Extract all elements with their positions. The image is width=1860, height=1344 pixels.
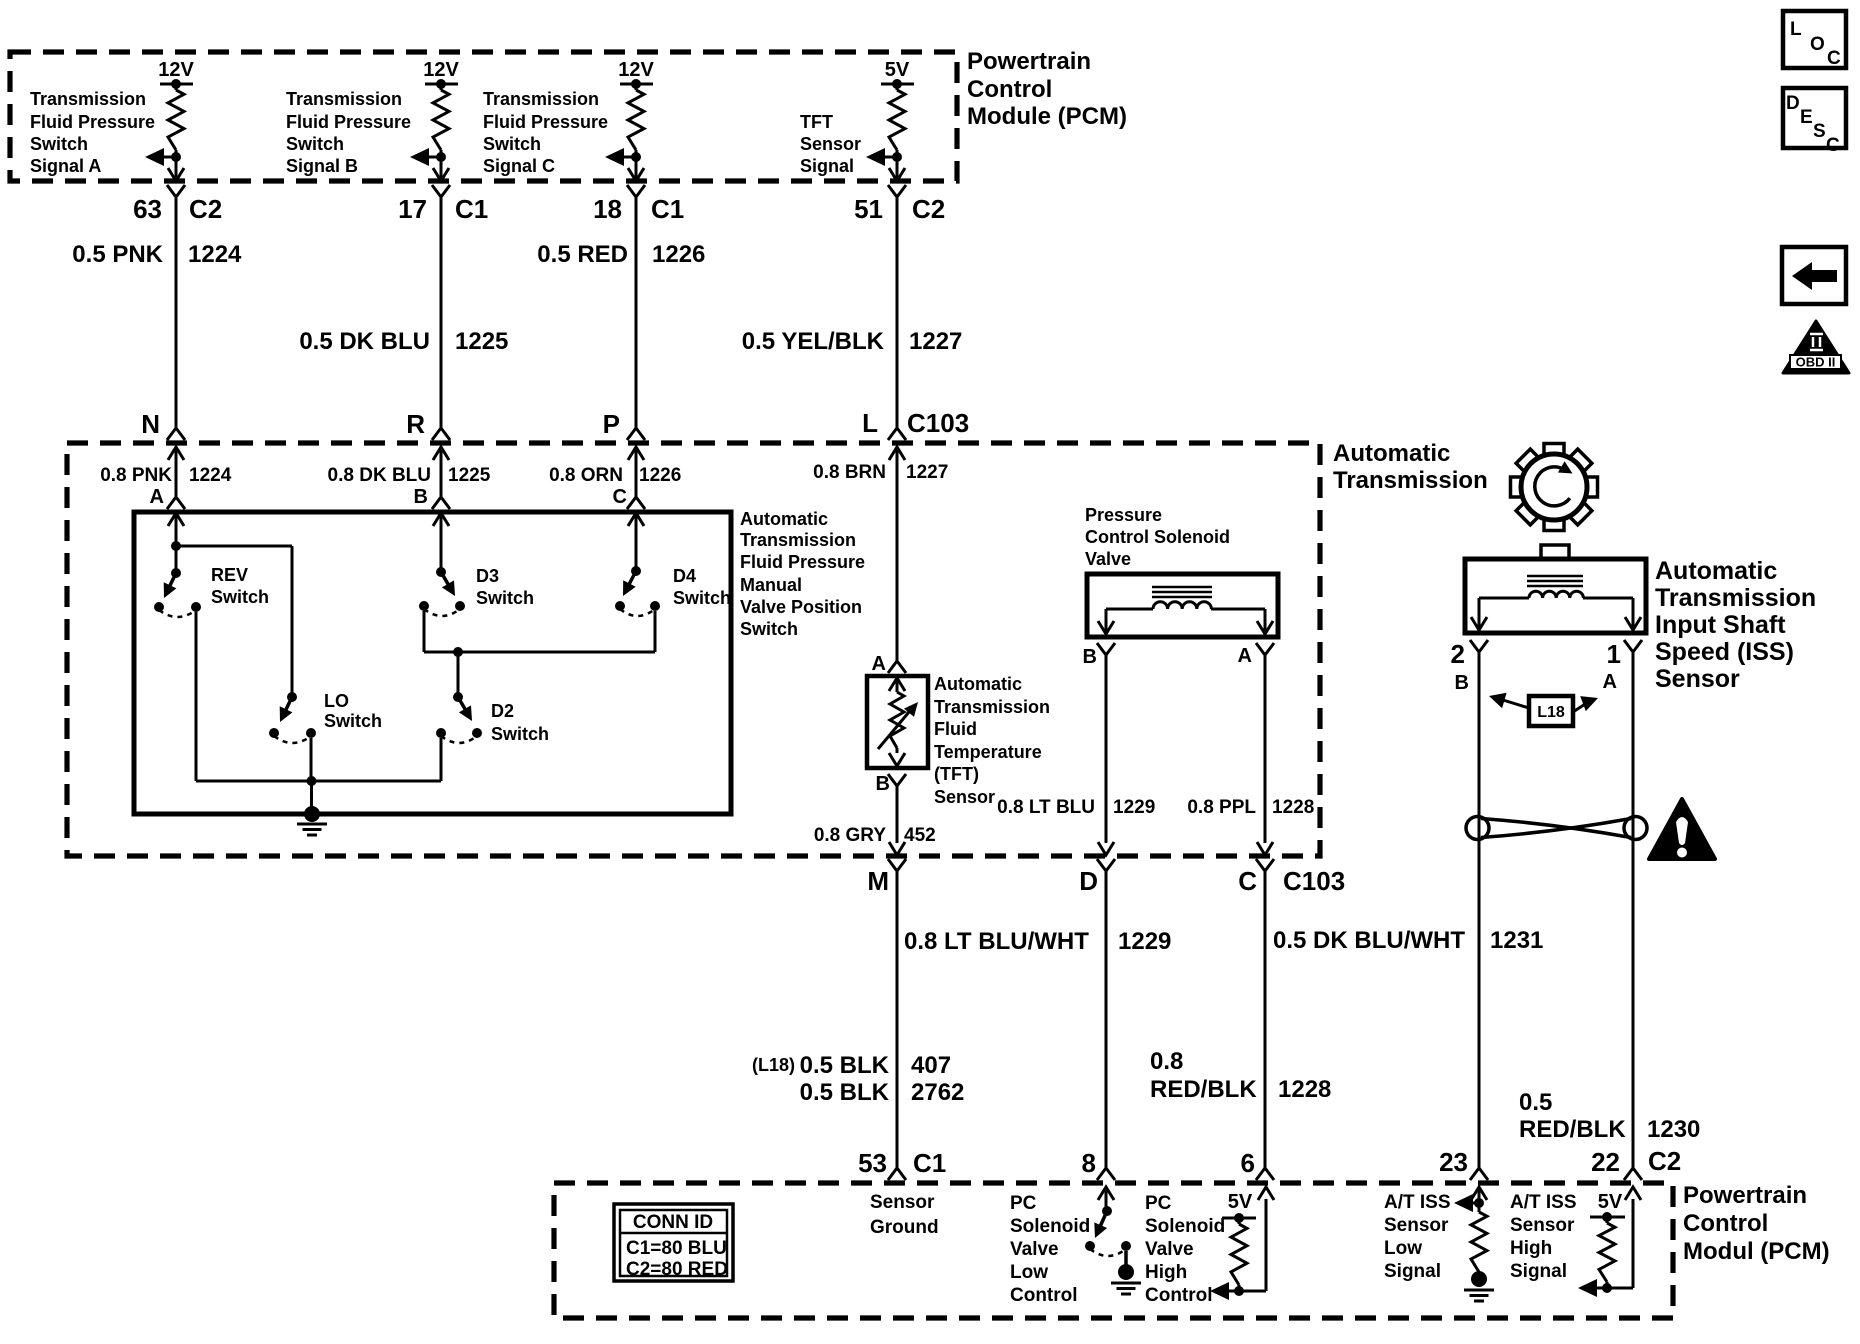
- svg-text:0.8 LT BLU/WHT: 0.8 LT BLU/WHT: [904, 928, 1089, 955]
- svg-text:1229: 1229: [1113, 797, 1155, 818]
- svg-text:2762: 2762: [911, 1079, 964, 1106]
- svg-text:B: B: [414, 486, 428, 508]
- svg-text:0.5 YEL/BLK: 0.5 YEL/BLK: [742, 328, 885, 355]
- svg-text:Signal: Signal: [1510, 1261, 1567, 1282]
- svg-text:Manual: Manual: [740, 575, 802, 595]
- ground: ISS low signal: [1471, 1271, 1487, 1287]
- svg-text:C: C: [613, 486, 627, 508]
- svg-text:B: B: [1455, 672, 1469, 694]
- svg-text:C1: C1: [455, 194, 488, 224]
- svg-text:B: B: [1083, 646, 1097, 668]
- svg-text:Transmission: Transmission: [483, 89, 599, 109]
- connector fork pin 22: [1624, 1168, 1642, 1180]
- svg-text:CONN ID: CONN ID: [633, 1212, 713, 1233]
- svg-text:Switch: Switch: [673, 588, 731, 608]
- connector fork pin 23: [1470, 1168, 1488, 1180]
- svg-text:Sensor: Sensor: [1384, 1215, 1449, 1236]
- svg-text:Switch: Switch: [740, 619, 798, 639]
- svg-text:Fluid Pressure: Fluid Pressure: [740, 552, 865, 572]
- wire 1225 inside transmission (node B): [433, 447, 449, 460]
- top PCM dashed box (Powertrain Control Module): [10, 52, 957, 181]
- svg-text:18: 18: [593, 194, 622, 224]
- thermistor: TFT sensor element: [889, 678, 905, 691]
- svg-text:C103: C103: [1283, 866, 1345, 896]
- svg-text:Temperature: Temperature: [934, 742, 1042, 762]
- svg-text:1229: 1229: [1118, 928, 1171, 955]
- svg-text:D2: D2: [491, 701, 514, 721]
- connector C103 pin C: [1256, 859, 1274, 871]
- wire 1231 (ISS B to pin 23): [1478, 652, 1481, 1168]
- svg-text:Pressure: Pressure: [1085, 505, 1162, 525]
- svg-text:High: High: [1145, 1262, 1187, 1283]
- svg-text:A: A: [1238, 645, 1252, 667]
- wire 1226 inside transmission (node C): [628, 447, 644, 460]
- wire bus to case ground: [310, 781, 313, 814]
- svg-text:O: O: [1810, 34, 1825, 55]
- svg-text:0.8 LT BLU: 0.8 LT BLU: [997, 797, 1095, 818]
- svg-text:L18: L18: [1537, 704, 1565, 721]
- node: ground bus junction: [307, 776, 317, 786]
- svg-text:1227: 1227: [909, 328, 962, 355]
- pin 51 C2 connector: [888, 185, 906, 197]
- warning triangle icon: [1649, 799, 1715, 859]
- connector A into switch box: [167, 497, 185, 509]
- svg-text:Transmission: Transmission: [1655, 584, 1816, 612]
- svg-text:407: 407: [911, 1052, 951, 1079]
- svg-text:1226: 1226: [639, 465, 681, 486]
- svg-text:Transmission: Transmission: [934, 697, 1050, 717]
- svg-text:12V: 12V: [158, 59, 194, 81]
- wire 1228 (C to pin 6): [1264, 871, 1267, 1168]
- icon: rotating gear: [1544, 444, 1564, 457]
- svg-text:0.8 DK BLU: 0.8 DK BLU: [328, 465, 431, 486]
- svg-text:23: 23: [1439, 1147, 1468, 1177]
- wire 1227 (pin51 to C103 L): [896, 197, 899, 428]
- svg-text:A/T ISS: A/T ISS: [1384, 1192, 1451, 1213]
- svg-text:0.5 BLK: 0.5 BLK: [800, 1052, 890, 1079]
- svg-text:Fluid Pressure: Fluid Pressure: [30, 112, 155, 132]
- svg-text:0.5 DK BLU/WHT: 0.5 DK BLU/WHT: [1273, 927, 1465, 954]
- svg-text:0.8: 0.8: [1150, 1048, 1183, 1075]
- switch: PC solenoid low control driver: [1098, 1187, 1114, 1200]
- wire 1227 inside transmission (to TFT sensor): [889, 447, 905, 460]
- svg-text:PC: PC: [1145, 1193, 1172, 1214]
- svg-text:6: 6: [1241, 1148, 1255, 1178]
- connector B of TFT sensor: [888, 774, 906, 786]
- wire 452 (TFT B to C103 M): [896, 786, 899, 843]
- svg-text:Control: Control: [1683, 1210, 1768, 1237]
- svg-text:Signal B: Signal B: [286, 156, 358, 176]
- svg-text:Modul (PCM): Modul (PCM): [1683, 1238, 1830, 1265]
- svg-text:452: 452: [904, 825, 936, 846]
- pin 63 C2 connector: [167, 185, 185, 197]
- svg-text:C1=80 BLU: C1=80 BLU: [626, 1238, 727, 1259]
- connector C103 pin N: [167, 428, 185, 440]
- wire junction-A to LO switch: [176, 545, 292, 548]
- svg-text:RED/BLK: RED/BLK: [1519, 1116, 1626, 1143]
- svg-text:C: C: [1238, 866, 1257, 896]
- svg-text:Sensor: Sensor: [934, 787, 995, 807]
- svg-text:C: C: [1827, 48, 1841, 69]
- wire junction to D2 pivot: [457, 652, 460, 697]
- connector pin 1 A of ISS sensor: [1624, 640, 1642, 652]
- ISS sensor box: [1541, 545, 1569, 559]
- connector pin 2 B of ISS sensor: [1470, 640, 1488, 652]
- svg-text:1227: 1227: [906, 462, 948, 483]
- svg-text:M: M: [867, 866, 889, 896]
- svg-text:D4: D4: [673, 566, 696, 586]
- svg-text:Signal: Signal: [800, 156, 854, 176]
- node: D2 feed junction: [453, 647, 463, 657]
- icon: LOC box: [1783, 11, 1846, 68]
- svg-text:C2: C2: [189, 194, 222, 224]
- connector C103 pin D: [1097, 859, 1115, 871]
- svg-text:(L18): (L18): [752, 1055, 795, 1075]
- icon: back arrow box: [1782, 247, 1846, 304]
- connector C103 pin M: [888, 859, 906, 871]
- svg-text:1224: 1224: [188, 241, 242, 268]
- wire 1225 (pin17 to C103 R): [440, 197, 443, 428]
- svg-text:E: E: [1800, 107, 1813, 128]
- Manual Valve Position Switch box: [134, 512, 731, 814]
- wire REV contact to ground bus: [195, 612, 198, 781]
- twisted pair symbol: [1466, 817, 1647, 840]
- svg-text:Valve: Valve: [1010, 1239, 1059, 1260]
- svg-text:Automatic: Automatic: [740, 509, 828, 529]
- svg-text:Sensor: Sensor: [1655, 665, 1740, 693]
- svg-text:C2=80 RED: C2=80 RED: [626, 1259, 728, 1280]
- connector C103 pin R: [432, 428, 450, 440]
- svg-text:Control: Control: [967, 76, 1052, 103]
- svg-text:1226: 1226: [652, 241, 705, 268]
- wire LO contact to ground bus: [310, 738, 313, 781]
- connector A of solenoid valve: [1256, 643, 1274, 655]
- svg-text:1228: 1228: [1272, 797, 1314, 818]
- svg-text:C103: C103: [907, 408, 969, 438]
- svg-text:12V: 12V: [423, 59, 459, 81]
- connector A of TFT sensor: [888, 661, 906, 673]
- svg-text:Low: Low: [1384, 1238, 1422, 1259]
- svg-text:Fluid Pressure: Fluid Pressure: [483, 112, 608, 132]
- connector C103 pin P: [627, 428, 645, 440]
- svg-text:Automatic: Automatic: [1655, 557, 1777, 585]
- svg-text:PC: PC: [1010, 1193, 1037, 1214]
- svg-text:Switch: Switch: [30, 134, 88, 154]
- svg-text:Switch: Switch: [211, 587, 269, 607]
- wire D4 contact to D2: [654, 611, 657, 652]
- svg-text:D: D: [1786, 93, 1800, 114]
- svg-text:0.8 GRY: 0.8 GRY: [814, 825, 886, 846]
- wire D3 contact to D2: [423, 611, 426, 652]
- resistor: A/T ISS sensor low signal (pin 23): [1471, 1187, 1487, 1200]
- svg-text:0.8 PPL: 0.8 PPL: [1187, 797, 1256, 818]
- svg-text:C: C: [1826, 135, 1840, 156]
- svg-text:P: P: [603, 409, 620, 439]
- svg-text:LO: LO: [324, 691, 349, 711]
- svg-text:Control: Control: [1010, 1285, 1078, 1306]
- svg-text:0.8 ORN: 0.8 ORN: [549, 465, 623, 486]
- connector C103 pin L: [888, 428, 906, 440]
- svg-text:Signal A: Signal A: [30, 156, 101, 176]
- svg-text:Automatic: Automatic: [1333, 440, 1450, 467]
- svg-text:C2: C2: [912, 194, 945, 224]
- ground: PC solenoid high contact: [1118, 1264, 1134, 1280]
- svg-text:B: B: [876, 773, 890, 795]
- svg-text:1: 1: [1607, 639, 1621, 669]
- wire 1228 (solenoid A to C103 C): [1264, 655, 1267, 843]
- wire 1229 (solenoid B to C103 D): [1105, 655, 1108, 843]
- svg-text:Solenoid: Solenoid: [1010, 1216, 1090, 1237]
- wire 1226 (pin18 to C103 P): [635, 197, 638, 428]
- svg-text:C1: C1: [651, 194, 684, 224]
- wire 1230 (ISS A to pin 22): [1632, 652, 1635, 1168]
- svg-text:Module (PCM): Module (PCM): [967, 103, 1127, 130]
- svg-text:N: N: [141, 409, 160, 439]
- svg-text:0.5 RED: 0.5 RED: [537, 241, 628, 268]
- callout L18: [1529, 696, 1573, 726]
- switch D4: [631, 566, 641, 576]
- svg-text:Transmission: Transmission: [30, 89, 146, 109]
- svg-text:L: L: [1790, 19, 1802, 40]
- svg-text:A: A: [872, 653, 886, 675]
- svg-text:5V: 5V: [885, 59, 910, 81]
- ground: switch assembly case: [304, 806, 320, 822]
- svg-text:Solenoid: Solenoid: [1145, 1216, 1225, 1237]
- switch LO: [287, 692, 297, 702]
- svg-text:51: 51: [854, 194, 883, 224]
- svg-text:Transmission: Transmission: [1333, 467, 1488, 494]
- svg-text:Sensor: Sensor: [1510, 1215, 1575, 1236]
- svg-text:Signal: Signal: [1384, 1261, 1441, 1282]
- svg-text:A: A: [150, 486, 164, 508]
- wire 1224 (pin63 to C103 N): [175, 197, 178, 428]
- Automatic Transmission dashed box: [67, 443, 1320, 856]
- svg-text:Speed (ISS): Speed (ISS): [1655, 638, 1794, 666]
- svg-text:1228: 1228: [1278, 1076, 1331, 1103]
- svg-text:Input Shaft: Input Shaft: [1655, 611, 1786, 639]
- svg-text:0.8 PNK: 0.8 PNK: [100, 465, 172, 486]
- connector C into switch box: [627, 497, 645, 509]
- svg-text:OBD II: OBD II: [1796, 355, 1836, 370]
- switch REV: [175, 546, 178, 573]
- svg-text:C2: C2: [1648, 1146, 1681, 1176]
- svg-text:TFT: TFT: [800, 112, 833, 132]
- svg-text:Switch: Switch: [476, 588, 534, 608]
- svg-text:0.5 BLK: 0.5 BLK: [800, 1079, 890, 1106]
- node: junction A / REV branch: [171, 541, 181, 551]
- svg-text:L: L: [862, 408, 878, 438]
- ISS sensor coil: [1527, 575, 1583, 578]
- svg-text:RED/BLK: RED/BLK: [1150, 1076, 1257, 1103]
- svg-text:0.8 BRN: 0.8 BRN: [813, 462, 886, 483]
- svg-text:Powertrain: Powertrain: [967, 48, 1091, 75]
- solenoid: Pressure Control Solenoid Valve box: [1087, 574, 1278, 637]
- TFT sensor box: [867, 676, 928, 768]
- wire 407/2762 (M to pin 53): [896, 871, 899, 1168]
- svg-text:53: 53: [858, 1148, 887, 1178]
- svg-text:63: 63: [133, 194, 162, 224]
- svg-text:Switch: Switch: [324, 711, 382, 731]
- switch D3: [436, 567, 446, 577]
- svg-text:Control Solenoid: Control Solenoid: [1085, 527, 1230, 547]
- svg-text:Transmission: Transmission: [286, 89, 402, 109]
- svg-text:(TFT): (TFT): [934, 764, 979, 784]
- svg-text:1230: 1230: [1647, 1116, 1700, 1143]
- svg-text:22: 22: [1591, 1147, 1620, 1177]
- bottom PCM dashed box (Powertrain Control Modul): [554, 1183, 1673, 1318]
- svg-text:Valve: Valve: [1145, 1239, 1194, 1260]
- svg-text:1225: 1225: [448, 465, 491, 486]
- svg-text:A/T ISS: A/T ISS: [1510, 1192, 1577, 1213]
- wire 1224 inside transmission (node A): [168, 447, 184, 460]
- wire D2 contact to ground bus: [440, 738, 443, 781]
- svg-text:Fluid Pressure: Fluid Pressure: [286, 112, 411, 132]
- svg-text:A: A: [1603, 671, 1617, 693]
- svg-text:Control: Control: [1145, 1285, 1213, 1306]
- svg-text:Fluid: Fluid: [934, 719, 977, 739]
- svg-text:2: 2: [1451, 639, 1465, 669]
- connector B of solenoid valve: [1097, 643, 1115, 655]
- svg-text:Sensor: Sensor: [870, 1192, 935, 1213]
- wire 1229 (D to pin 8): [1105, 871, 1108, 1168]
- CONN ID table: [614, 1204, 733, 1281]
- svg-text:Signal C: Signal C: [483, 156, 555, 176]
- svg-text:0.5 PNK: 0.5 PNK: [72, 241, 163, 268]
- svg-text:0.5: 0.5: [1519, 1089, 1552, 1116]
- svg-text:1231: 1231: [1490, 927, 1543, 954]
- pin 17 C1 connector: [432, 185, 450, 197]
- svg-text:Sensor: Sensor: [800, 134, 861, 154]
- svg-text:0.5 DK BLU: 0.5 DK BLU: [299, 328, 430, 355]
- svg-text:Valve Position: Valve Position: [740, 597, 862, 617]
- svg-text:S: S: [1813, 121, 1826, 142]
- svg-text:5V: 5V: [1598, 1191, 1623, 1213]
- svg-text:Switch: Switch: [491, 724, 549, 744]
- icon: OBD II triangle: [1783, 321, 1849, 373]
- icon: DESC box: [1783, 88, 1846, 148]
- svg-text:D: D: [1079, 866, 1098, 896]
- svg-text:Switch: Switch: [483, 134, 541, 154]
- svg-text:R: R: [406, 409, 425, 439]
- svg-text:1225: 1225: [455, 328, 508, 355]
- svg-text:D3: D3: [476, 566, 499, 586]
- svg-text:Ground: Ground: [870, 1217, 939, 1238]
- connector B into switch box: [432, 497, 450, 509]
- svg-text:Switch: Switch: [286, 134, 344, 154]
- svg-text:17: 17: [398, 194, 427, 224]
- svg-text:Automatic: Automatic: [934, 674, 1022, 694]
- svg-text:12V: 12V: [618, 59, 654, 81]
- svg-text:Powertrain: Powertrain: [1683, 1182, 1807, 1209]
- switch D2: [453, 692, 463, 702]
- svg-text:High: High: [1510, 1238, 1552, 1259]
- svg-text:1224: 1224: [189, 465, 232, 486]
- solenoid coil and core: [1152, 586, 1212, 589]
- svg-text:C1: C1: [913, 1148, 946, 1178]
- svg-text:8: 8: [1082, 1148, 1096, 1178]
- svg-text:Low: Low: [1010, 1262, 1048, 1283]
- svg-text:5V: 5V: [1228, 1191, 1253, 1213]
- pin 18 C1 connector: [627, 185, 645, 197]
- svg-text:REV: REV: [211, 565, 248, 585]
- svg-text:Valve: Valve: [1085, 549, 1131, 569]
- svg-text:Transmission: Transmission: [740, 530, 856, 550]
